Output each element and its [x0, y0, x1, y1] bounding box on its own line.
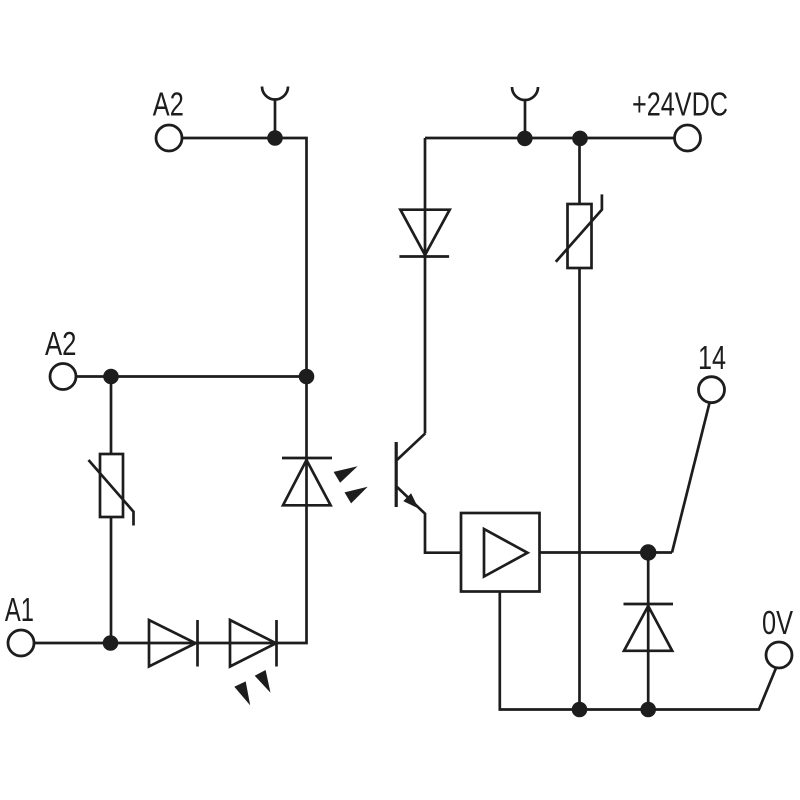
svg-text:0V: 0V: [762, 604, 793, 641]
svg-text:A2: A2: [45, 325, 77, 362]
svg-text:14: 14: [698, 339, 726, 376]
svg-text:+24VDC: +24VDC: [632, 86, 728, 123]
svg-text:A2: A2: [153, 86, 184, 123]
svg-text:A1: A1: [5, 591, 34, 628]
